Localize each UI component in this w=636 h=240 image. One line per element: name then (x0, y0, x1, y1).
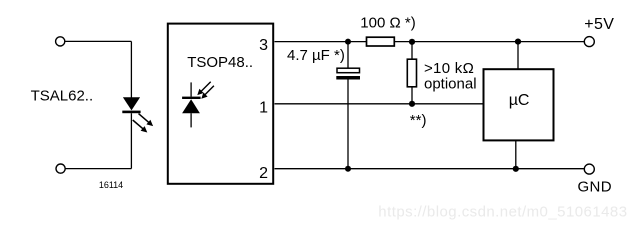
node junction cap top (345, 39, 351, 45)
capacitor C1 lead bottom (347, 80, 349, 169)
resistor R1 100 Ohm (367, 37, 395, 46)
resistor R2 lead bottom (411, 87, 413, 104)
svg-text:https://blog.csdn.net/m0_51061: https://blog.csdn.net/m0_51061483 (378, 203, 627, 220)
svg-text:100 Ω *): 100 Ω *) (360, 15, 415, 32)
wire pin3 to cap node (275, 41, 367, 43)
photodiode triangle (182, 99, 200, 113)
LED D1 TSAL62.. triangle (123, 97, 140, 110)
capacitor C1 lead top (347, 42, 349, 69)
photodiode lead bottom (190, 113, 192, 127)
terminal bottom-left (LED cathode) (56, 164, 65, 173)
capacitor C1 plate top (hollow) (337, 68, 360, 73)
resistor R2 >10k lead top (411, 42, 413, 59)
wire LED anode vertical (130, 41, 132, 98)
svg-text:3: 3 (259, 37, 268, 54)
photodiode incoming arrow 1 (197, 82, 210, 95)
wire uC bottom to GND rail (515, 140, 517, 168)
svg-text:µC: µC (509, 92, 530, 109)
svg-text:1: 1 (259, 100, 268, 117)
photodiode cathode bar (182, 97, 201, 99)
terminal +5V (584, 37, 594, 47)
capacitor C1 plate bottom (solid) (336, 76, 360, 80)
terminal top-left (LED anode) (56, 37, 65, 46)
node junction uC bottom (513, 166, 519, 172)
wire uC top to +5V rail (517, 42, 519, 70)
svg-text:optional: optional (424, 75, 477, 92)
wire top-left horizontal (65, 40, 131, 42)
svg-text:+5V: +5V (584, 16, 614, 33)
node junction R2 bottom (409, 101, 415, 107)
wire resistor to +5V (394, 41, 584, 43)
node junction R2 top (409, 39, 415, 45)
terminal GND (584, 164, 594, 174)
IC U1 TSOP48.. box (168, 24, 273, 184)
svg-text:>10 kΩ: >10 kΩ (424, 60, 474, 77)
photodiode incoming arrow 2 (201, 86, 214, 99)
LED emission arrow 2 (133, 120, 148, 133)
node junction cap bottom (345, 166, 351, 172)
node junction uC top (515, 39, 521, 45)
LED D1 cathode bar (122, 111, 140, 114)
svg-text:**): **) (410, 112, 427, 129)
LED emission arrow 1 (139, 114, 154, 127)
wire bottom-left horizontal (65, 168, 131, 170)
wire LED cathode vertical (130, 113, 132, 168)
wire pin2 to GND (275, 168, 585, 170)
IC U2 uC box (484, 69, 554, 140)
svg-text:TSAL62..: TSAL62.. (31, 88, 94, 105)
wire pin1 to uC (275, 103, 484, 105)
svg-text:16114: 16114 (99, 180, 123, 190)
resistor R2 >10k body (407, 59, 416, 87)
photodiode lead top (190, 82, 192, 96)
svg-text:2: 2 (259, 165, 268, 182)
svg-text:GND: GND (578, 179, 612, 196)
svg-text:4.7 µF *): 4.7 µF *) (287, 47, 345, 64)
svg-text:TSOP48..: TSOP48.. (187, 54, 253, 71)
